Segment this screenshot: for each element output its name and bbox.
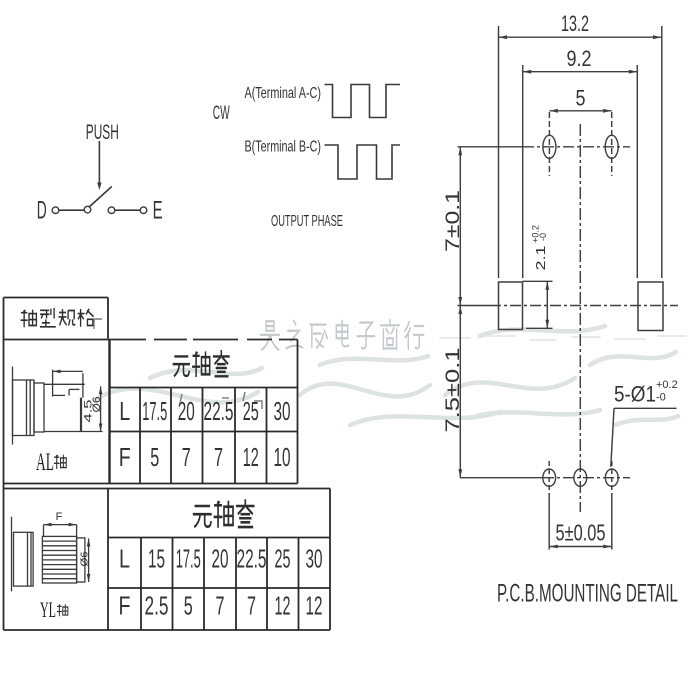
svg-text:F: F — [119, 442, 131, 472]
svg-text:5: 5 — [184, 591, 193, 621]
svg-text:9.2: 9.2 — [567, 46, 592, 71]
svg-text:B(Terminal B-C): B(Terminal B-C) — [245, 139, 322, 156]
svg-text:D: D — [37, 197, 47, 225]
svg-text:5-Ø1: 5-Ø1 — [614, 382, 656, 407]
svg-text:12: 12 — [275, 591, 291, 621]
svg-text:CW: CW — [213, 103, 230, 124]
svg-text:5: 5 — [150, 442, 159, 472]
svg-text:2.1: 2.1 — [533, 246, 548, 271]
svg-text:5±0.05: 5±0.05 — [556, 520, 606, 546]
svg-text:-0: -0 — [656, 392, 666, 404]
svg-text:F: F — [119, 591, 131, 621]
svg-text:22.5: 22.5 — [204, 396, 234, 426]
svg-text:+0.2: +0.2 — [656, 379, 678, 391]
svg-text:30: 30 — [274, 396, 291, 426]
svg-text:Ø6: Ø6 — [91, 397, 103, 413]
svg-text:12: 12 — [243, 442, 259, 472]
svg-text:7±0.1: 7±0.1 — [443, 190, 464, 252]
svg-text:-0: -0 — [538, 233, 548, 241]
svg-text:7: 7 — [182, 442, 191, 472]
svg-text:17.5: 17.5 — [176, 544, 201, 574]
svg-text:15: 15 — [148, 544, 165, 574]
svg-text:AL: AL — [36, 449, 54, 476]
svg-text:L: L — [119, 544, 130, 574]
svg-text:E: E — [153, 197, 163, 225]
svg-text:7.5±0.1: 7.5±0.1 — [443, 348, 464, 433]
svg-text:OUTPUT PHASE: OUTPUT PHASE — [271, 213, 343, 230]
svg-text:12: 12 — [306, 591, 323, 621]
svg-text:2.5: 2.5 — [145, 591, 169, 621]
svg-text:25: 25 — [275, 544, 291, 574]
svg-text:30: 30 — [306, 544, 323, 574]
svg-text:7: 7 — [216, 591, 225, 621]
svg-text:P.C.B.MOUNTING DETAIL: P.C.B.MOUNTING DETAIL — [497, 580, 678, 608]
svg-text:7: 7 — [247, 591, 256, 621]
svg-text:20: 20 — [212, 544, 229, 574]
svg-text:YL: YL — [40, 597, 56, 622]
svg-text:22.5: 22.5 — [237, 544, 267, 574]
svg-text:13.2: 13.2 — [561, 11, 589, 36]
svg-text:L: L — [119, 396, 130, 426]
svg-text:17.5: 17.5 — [142, 396, 167, 426]
svg-text:7: 7 — [214, 442, 223, 472]
svg-text:Ø6: Ø6 — [80, 551, 91, 566]
svg-text:A(Terminal A-C): A(Terminal A-C) — [245, 85, 322, 102]
svg-text:10: 10 — [274, 442, 291, 472]
svg-text:F: F — [56, 511, 63, 523]
svg-text:PUSH: PUSH — [86, 121, 119, 144]
svg-text:5: 5 — [576, 86, 586, 111]
